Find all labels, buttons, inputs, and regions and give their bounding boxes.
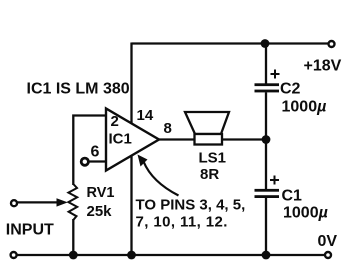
op-amp IC1 xyxy=(106,109,159,171)
svg-text:1000µ: 1000µ xyxy=(282,99,327,116)
wire right rail middle (C2 to C1) xyxy=(265,92,267,189)
wire pin 14 vertical xyxy=(130,43,132,126)
svg-text:INPUT: INPUT xyxy=(6,222,54,239)
node output junction xyxy=(262,135,271,144)
node RV1 bottom junction xyxy=(69,251,78,260)
svg-text:7, 10, 11, 12.: 7, 10, 11, 12. xyxy=(136,213,228,230)
wire pin 6 stub xyxy=(90,160,107,162)
capacitor C1 xyxy=(255,176,280,199)
terminal input ground xyxy=(11,252,17,258)
wire pin 2 xyxy=(73,116,106,186)
wire curved arrow to pins xyxy=(138,155,179,196)
wire top rail +18V xyxy=(132,42,329,44)
svg-text:6: 6 xyxy=(91,144,100,161)
svg-text:0V: 0V xyxy=(318,233,338,250)
terminal pin 6 xyxy=(81,158,88,165)
potentiometer RV1 xyxy=(68,184,77,220)
terminal input signal xyxy=(11,200,17,206)
wire right rail upper (to C2) xyxy=(265,44,267,85)
svg-text:14: 14 xyxy=(137,107,154,124)
node top rail junction xyxy=(261,39,270,48)
svg-text:RV1: RV1 xyxy=(87,185,115,201)
svg-text:8R: 8R xyxy=(200,166,219,183)
node ground pins junction xyxy=(127,251,136,260)
capacitor C2 xyxy=(255,70,280,93)
wire right rail lower (C1 to 0V) xyxy=(265,198,267,255)
svg-text:C2: C2 xyxy=(280,81,301,98)
svg-text:8: 8 xyxy=(164,120,172,137)
svg-text:1000µ: 1000µ xyxy=(283,205,328,222)
svg-text:IC1 IS LM 380: IC1 IS LM 380 xyxy=(27,81,130,98)
svg-text:2: 2 xyxy=(111,113,119,130)
svg-text:25k: 25k xyxy=(87,203,113,220)
wire bottom rail 0V xyxy=(14,254,325,256)
svg-text:+18V: +18V xyxy=(304,58,342,75)
wire wiper arrow xyxy=(17,198,68,206)
svg-text:C1: C1 xyxy=(282,188,303,205)
wire speaker to rail xyxy=(222,138,267,140)
node right rail bottom junction xyxy=(262,251,271,260)
svg-text:IC1: IC1 xyxy=(109,131,132,148)
svg-text:TO PINS 3, 4, 5,: TO PINS 3, 4, 5, xyxy=(136,197,246,214)
terminal 0V xyxy=(325,252,331,258)
speaker LS1 xyxy=(185,112,229,145)
terminal +18V xyxy=(329,41,335,47)
svg-text:LS1: LS1 xyxy=(199,150,227,167)
wire output pin 8 xyxy=(158,138,195,140)
wire RV1 bottom xyxy=(72,219,74,255)
wire ground pins xyxy=(130,156,132,255)
